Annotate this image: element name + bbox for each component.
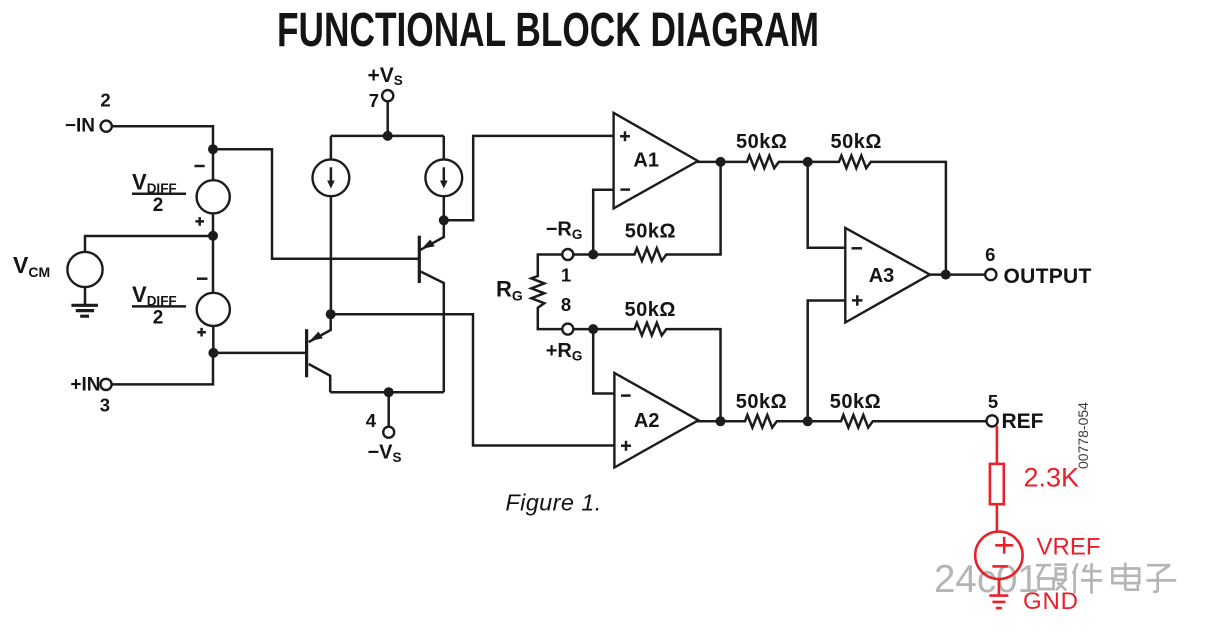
wire pin7 stem <box>386 101 389 136</box>
wire red REF drop <box>996 426 999 464</box>
wire A1 minus input <box>593 190 613 250</box>
svg-text:−IN: −IN <box>65 115 95 136</box>
watermark glyph jian <box>1073 563 1102 594</box>
node D junction <box>439 215 449 225</box>
svg-text:50kΩ: 50kΩ <box>736 131 787 153</box>
svg-text:Figure 1.: Figure 1. <box>505 490 601 516</box>
node F junction <box>384 387 394 397</box>
svg-text:50kΩ: 50kΩ <box>830 391 881 413</box>
svg-text:GND: GND <box>1023 588 1079 615</box>
svg-text:A3: A3 <box>869 265 895 287</box>
svg-text:1: 1 <box>561 264 571 285</box>
wire collector rail <box>330 391 444 394</box>
wire VDIFF1 to node B <box>212 213 215 292</box>
svg-text:2.3K: 2.3K <box>1024 463 1080 493</box>
svg-text:8: 8 <box>561 294 571 315</box>
node R1-R2 junction <box>803 157 813 167</box>
resistor 50k A1 feedback <box>573 162 720 261</box>
svg-text:50kΩ: 50kΩ <box>625 221 676 243</box>
svg-text:OUTPUT: OUTPUT <box>1004 265 1092 288</box>
wire A3 output <box>930 273 986 276</box>
ground GND red <box>989 596 1008 609</box>
wire A3 plus input <box>808 301 846 422</box>
node A3 output junction <box>941 270 951 280</box>
wire emitter rail to A2 plus input <box>331 314 615 445</box>
source VCM <box>67 252 102 287</box>
source VDIFF/2 lower <box>197 293 230 326</box>
svg-text:A2: A2 <box>634 410 660 432</box>
wire A2 output row <box>697 415 987 428</box>
node -VS pin 4 <box>383 427 394 438</box>
svg-text:2: 2 <box>153 308 164 329</box>
svg-text:3: 3 <box>100 394 110 415</box>
svg-text:4: 4 <box>366 410 377 431</box>
transistor Q1 <box>418 236 421 283</box>
resistor RG <box>531 255 562 330</box>
svg-text:50kΩ: 50kΩ <box>830 131 881 153</box>
node C junction <box>208 348 218 358</box>
node A2 output junction <box>716 416 726 426</box>
op-amp A3 <box>845 228 930 323</box>
wire node C to Q2 base <box>213 352 305 355</box>
resistor 2.3K <box>990 464 1004 504</box>
node A junction <box>208 144 218 154</box>
svg-text:+IN: +IN <box>70 374 100 395</box>
svg-text:6: 6 <box>985 244 995 265</box>
svg-text:REF: REF <box>1002 410 1044 433</box>
watermark glyph ying <box>1036 565 1066 591</box>
svg-text:VREF: VREF <box>1037 534 1101 561</box>
svg-text:FUNCTIONAL BLOCK DIAGRAM: FUNCTIONAL BLOCK DIAGRAM <box>277 3 819 57</box>
svg-text:50kΩ: 50kΩ <box>624 299 675 321</box>
svg-text:A1: A1 <box>633 150 659 172</box>
wire VCM to node B <box>85 236 213 252</box>
wire A1 output row <box>696 156 946 275</box>
svg-text:50kΩ: 50kΩ <box>736 391 787 413</box>
wire VDIFF2 to node C <box>212 326 215 353</box>
current source I2 <box>443 136 446 220</box>
node R3-R4 junction <box>803 416 813 426</box>
wire -IN to node A <box>112 126 213 180</box>
op-amp A1 <box>614 113 698 209</box>
wire A2 minus input <box>593 329 614 393</box>
wire A3 minus input <box>808 162 846 248</box>
wire node D to A1 plus input <box>444 136 614 220</box>
svg-text:2: 2 <box>153 195 164 216</box>
ground VCM <box>84 287 87 305</box>
svg-text:00778-054: 00778-054 <box>1075 402 1091 469</box>
wire red resistor to VREF <box>996 504 999 531</box>
node rail junction <box>383 131 393 141</box>
wire +IN to node C <box>112 355 214 384</box>
source VDIFF/2 upper <box>197 180 230 213</box>
watermark glyph zi <box>1146 565 1176 592</box>
wire red VREF to ground <box>998 579 1001 596</box>
svg-text:2: 2 <box>100 89 110 110</box>
wire node A to Q1 base <box>213 149 418 259</box>
node B junction <box>208 231 218 241</box>
wire +VS rail <box>331 135 444 138</box>
node E junction (Q2 emitter rail) <box>326 309 336 319</box>
node A1 output junction <box>716 157 726 167</box>
svg-text:7: 7 <box>369 90 379 111</box>
watermark glyph dian <box>1112 563 1139 590</box>
op-amp A2 <box>614 373 698 468</box>
svg-text:5: 5 <box>988 391 998 412</box>
current source I1 <box>330 136 333 314</box>
transistor Q2 <box>305 329 308 377</box>
resistor 50k A2 feedback <box>573 323 720 421</box>
source VREF <box>975 532 1022 579</box>
wire pin4 stem <box>387 392 390 427</box>
